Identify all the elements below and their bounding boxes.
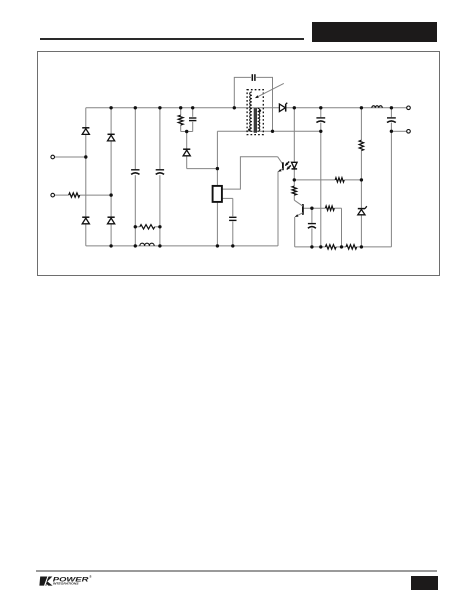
resistor R8 (divider) bbox=[346, 245, 357, 249]
diode D1 (bridge, upper left) bbox=[82, 127, 89, 129]
capacitor C4 (Y-cap) bbox=[251, 74, 253, 81]
wire output cap C5 leg bbox=[320, 108, 322, 117]
wire IC source to ground bbox=[216, 202, 218, 246]
wire opto LED branch bbox=[293, 108, 295, 162]
zener diode VR1 bbox=[358, 208, 365, 210]
transformer T1 secondary polarity dot bbox=[259, 109, 262, 112]
transformer T1 core bbox=[254, 108, 257, 133]
junction dot drain node bbox=[216, 167, 219, 170]
wire secondary ground rail bbox=[295, 246, 326, 248]
resistor R7 (divider) bbox=[325, 245, 336, 249]
diode D3 (bridge, lower left) bbox=[82, 216, 89, 218]
footer page-number black box bbox=[411, 576, 438, 590]
junction dot input 2 bbox=[109, 193, 112, 196]
header title black bar bbox=[312, 22, 438, 42]
diode D2 (bridge, upper right) bbox=[108, 133, 115, 135]
capacitor C3 (clamp) bbox=[189, 117, 196, 119]
resistor RF1 (fusible, input) bbox=[69, 193, 80, 197]
wire snubber C leg bbox=[192, 108, 194, 117]
resistor R2 (clamp) bbox=[178, 115, 183, 125]
junction dot Q1 base node bbox=[310, 207, 313, 210]
transformer T1 pointer arrow bbox=[257, 83, 284, 97]
capacitor C8 (base) bbox=[308, 223, 316, 225]
schematic frame bbox=[37, 51, 440, 277]
wire snubber R leg bbox=[180, 108, 182, 115]
transformer T1 dashed outline bbox=[247, 90, 263, 135]
wire output return bbox=[391, 130, 406, 132]
node EN wire bbox=[222, 157, 278, 189]
svg-text:INTEGRATIONS: INTEGRATIONS bbox=[53, 582, 80, 586]
wire feedback top bbox=[294, 179, 335, 181]
junction dot Y-cap return bbox=[271, 130, 274, 133]
footer rule bbox=[36, 570, 437, 571]
wire bulk cap C2 leg bbox=[159, 108, 161, 169]
wire AC input line 2 bbox=[54, 194, 68, 196]
IC U1 (TinySwitch) bbox=[213, 186, 222, 202]
wire opto resistor leg bbox=[293, 180, 295, 186]
diode D6 (output rectifier) bbox=[279, 104, 285, 112]
junction dots secondary ground rail bbox=[310, 245, 313, 248]
diode D4 (bridge, lower right) bbox=[108, 216, 115, 218]
svg-text:®: ® bbox=[89, 575, 92, 579]
wire bleed resistor tie bbox=[135, 226, 140, 228]
capacitor C7 (bypass) bbox=[229, 216, 236, 218]
wire base cap leg bbox=[311, 208, 313, 223]
wire Q1 base bbox=[303, 207, 326, 209]
transformer T1 primary polarity dot bbox=[248, 128, 251, 131]
junction dot zener top node bbox=[360, 178, 363, 181]
inductor L1 (return choke) bbox=[140, 243, 154, 246]
wire output cap C6 leg bbox=[390, 108, 392, 117]
junction dot snubber tie bbox=[185, 130, 188, 133]
capacitor C6 (output) bbox=[387, 117, 396, 119]
optocoupler U2 LED bbox=[292, 162, 298, 168]
optocoupler U2 phototransistor bbox=[278, 157, 283, 164]
junction dots secondary lower rail bbox=[319, 130, 322, 133]
wire bulk cap C1 leg bbox=[134, 108, 136, 169]
capacitor C5 (output) bbox=[316, 117, 325, 119]
junction dots bleed resistor bbox=[134, 225, 137, 228]
wire primary return / drain bbox=[217, 130, 320, 132]
wire Q1 emitter leg bbox=[294, 217, 296, 247]
terminal AC input 1 bbox=[51, 155, 55, 159]
transistor Q1 (feedback) bbox=[302, 204, 304, 215]
resistor R3 (LED series) bbox=[335, 178, 344, 182]
wire primary ground rail bbox=[86, 245, 278, 247]
logo emblem bbox=[39, 577, 47, 586]
terminal DC output + bbox=[407, 106, 411, 110]
transformer T1 primary winding bbox=[250, 92, 252, 131]
capacitor C1 (bulk) bbox=[131, 169, 139, 171]
diode D5 (clamp) bbox=[183, 148, 190, 150]
wire Y-capacitor branch bbox=[234, 77, 251, 107]
terminal DC output - bbox=[407, 130, 411, 134]
junction dot input 1 bbox=[84, 155, 87, 158]
resistor R5 (opto pullup) bbox=[292, 186, 296, 195]
resistor R1 (bleed) bbox=[140, 225, 155, 229]
optocoupler U2 light arrows bbox=[285, 162, 289, 166]
wire AC input line 1 bbox=[54, 156, 85, 158]
capacitor C2 (bulk) bbox=[156, 169, 164, 171]
junction dot feedback node A bbox=[293, 178, 296, 181]
resistor R4 (upper divider) bbox=[359, 140, 363, 150]
Power Integrations logo bbox=[36, 573, 100, 590]
junction dots on top rail bbox=[109, 106, 112, 109]
wire bridge right leg bbox=[110, 108, 112, 246]
wire top rail (HV bus / secondary top) bbox=[86, 107, 407, 109]
node BP wire bbox=[222, 197, 233, 199]
transformer T1 secondary winding bbox=[258, 108, 260, 131]
junction dots primary ground rail bbox=[109, 244, 112, 247]
inductor L2 (output filter) bbox=[372, 106, 383, 108]
resistor R6 (base) bbox=[325, 206, 334, 210]
terminal AC input 2 bbox=[51, 193, 55, 197]
wire bridge left leg bbox=[85, 108, 87, 246]
wire snubber tie bbox=[181, 131, 193, 133]
wire clamp diode branch bbox=[186, 132, 188, 150]
wire zener branch bbox=[360, 108, 362, 140]
header rule bbox=[40, 38, 304, 40]
wire opto emitter leg bbox=[277, 171, 279, 246]
